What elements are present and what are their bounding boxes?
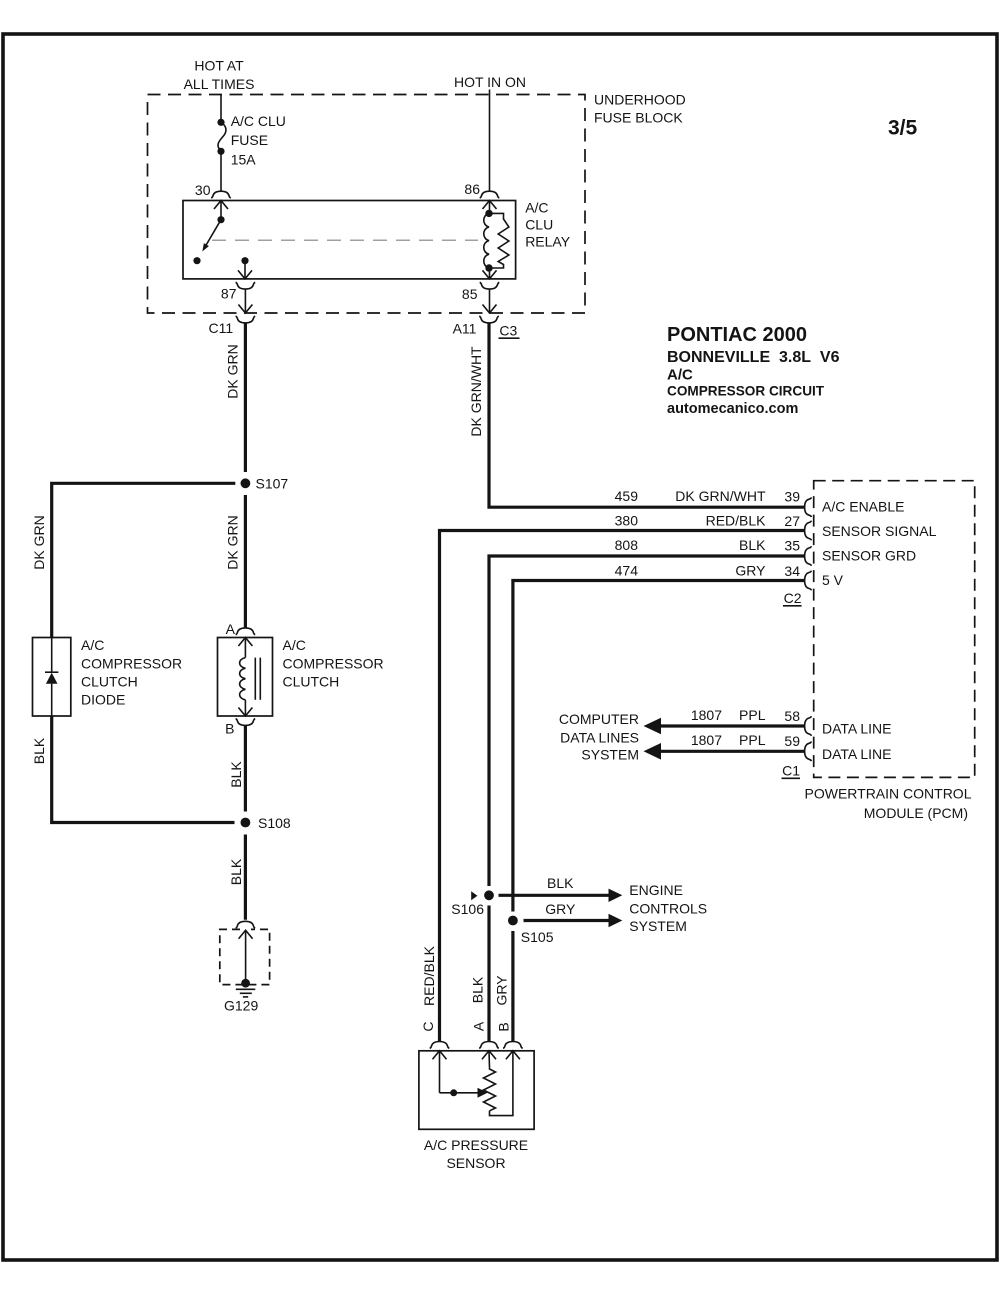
title block PONTIAC 2000 (667, 324, 840, 417)
svg-text:DK GRN/WHT: DK GRN/WHT (468, 346, 484, 437)
wire BLK S106 to engine controls (499, 889, 623, 902)
svg-text:A/C PRESSURE: A/C PRESSURE (424, 1137, 528, 1153)
wire S108 to G129 (244, 835, 247, 920)
relay coil parallel resistor (489, 213, 509, 268)
svg-text:30: 30 (195, 182, 211, 198)
svg-text:ALL TIMES: ALL TIMES (184, 76, 255, 92)
ground G129 dashed box (220, 929, 270, 984)
svg-text:85: 85 (462, 286, 478, 302)
splice S108 (241, 818, 251, 828)
relay pin 85 connector (480, 282, 500, 289)
svg-text:DK GRN: DK GRN (225, 344, 241, 398)
svg-text:34: 34 (784, 563, 800, 579)
svg-text:HOT AT: HOT AT (194, 58, 244, 74)
svg-text:58: 58 (784, 708, 800, 724)
underhood fuse block dashed box (148, 95, 586, 314)
svg-text:BLK: BLK (739, 537, 766, 553)
wire DK GRN/WHT A11 to PCM 39 (489, 323, 804, 508)
svg-text:35: 35 (784, 538, 800, 554)
wire clutch B to S108 (244, 726, 247, 812)
svg-text:SENSOR GRD: SENSOR GRD (822, 548, 916, 564)
svg-text:S106: S106 (451, 901, 484, 917)
sensor internal resistor (484, 1068, 496, 1111)
svg-text:DATA LINE: DATA LINE (822, 721, 892, 737)
relay pin 86 connector (480, 191, 500, 198)
svg-text:87: 87 (221, 286, 237, 302)
PCM pin 27 connector (805, 521, 812, 541)
svg-text:SENSOR SIGNAL: SENSOR SIGNAL (822, 523, 937, 539)
wire data line 59 (644, 743, 805, 760)
svg-text:3/5: 3/5 (888, 117, 918, 140)
svg-text:G129: G129 (224, 998, 258, 1014)
clutch L1 coil (238, 638, 260, 717)
svg-text:B: B (496, 1022, 512, 1031)
sensor pin B connector (503, 1042, 523, 1049)
sensor pin A connector (479, 1042, 499, 1049)
svg-text:B: B (225, 721, 234, 737)
svg-text:DK GRN/WHT: DK GRN/WHT (675, 488, 766, 504)
svg-text:474: 474 (615, 562, 639, 578)
relay armature dashed link (212, 239, 478, 241)
svg-text:459: 459 (615, 488, 639, 504)
svg-text:RELAY: RELAY (525, 234, 571, 250)
svg-text:COMPUTER: COMPUTER (559, 711, 639, 727)
svg-text:automecanico.com: automecanico.com (667, 401, 798, 417)
svg-text:39: 39 (784, 489, 800, 505)
svg-text:GRY: GRY (735, 562, 766, 578)
ground G129 symbol (236, 930, 256, 997)
svg-text:A/C: A/C (667, 367, 693, 384)
wire S107 to clutch pin A (244, 495, 247, 628)
svg-text:1807: 1807 (691, 707, 722, 723)
diode D1 box (33, 638, 71, 717)
svg-text:SYSTEM: SYSTEM (629, 918, 687, 934)
svg-text:380: 380 (615, 513, 639, 529)
svg-text:15A: 15A (231, 152, 257, 168)
sensor internal pin A lead (482, 1051, 496, 1068)
svg-text:CONTROLS: CONTROLS (629, 901, 707, 917)
clutch L1 box (218, 638, 273, 717)
svg-text:BLK: BLK (31, 737, 47, 764)
wire fuse to relay pin 30 (220, 151, 222, 191)
PCM dashed box (814, 481, 975, 778)
splice S107 (241, 478, 251, 488)
relay coil (483, 201, 497, 279)
sensor box A/C pressure sensor (419, 1051, 534, 1130)
PCM pin 58 connector (805, 716, 812, 736)
splice S105 (508, 916, 518, 926)
svg-text:DIODE: DIODE (81, 692, 125, 708)
svg-text:COMPRESSOR CIRCUIT: COMPRESSOR CIRCUIT (667, 384, 825, 399)
svg-text:A: A (471, 1021, 487, 1031)
PCM pin 34 connector (805, 571, 812, 591)
connector A11 C3 (479, 316, 499, 323)
wire diode to S108 (52, 716, 235, 823)
svg-text:GRY: GRY (494, 975, 510, 1006)
wire BLK S106 to sensor A (487, 906, 490, 1042)
svg-text:FUSE: FUSE (231, 132, 268, 148)
svg-text:S107: S107 (256, 476, 289, 492)
svg-text:CLU: CLU (525, 217, 553, 233)
svg-text:COMPRESSOR: COMPRESSOR (81, 656, 182, 672)
svg-text:A/C ENABLE: A/C ENABLE (822, 499, 904, 515)
svg-text:C1: C1 (782, 763, 800, 779)
wire hot feed to fuse (220, 95, 222, 122)
svg-text:C3: C3 (499, 323, 517, 339)
svg-text:BLK: BLK (547, 875, 574, 891)
svg-text:CLUTCH: CLUTCH (283, 674, 340, 690)
svg-text:COMPRESSOR: COMPRESSOR (283, 656, 384, 672)
sensor pin C connector (430, 1042, 450, 1049)
svg-text:SENSOR: SENSOR (446, 1155, 505, 1171)
sensor internal pin B lead (490, 1051, 520, 1116)
svg-text:BLK: BLK (470, 976, 486, 1003)
svg-text:5 V: 5 V (822, 572, 844, 588)
svg-text:ENGINE: ENGINE (629, 882, 683, 898)
relay switch common pin 30 (214, 201, 228, 224)
wire GRY S105 to sensor B (511, 931, 514, 1042)
svg-text:FUSE BLOCK: FUSE BLOCK (594, 110, 683, 126)
wire relay 85 to A11 (483, 290, 497, 314)
clutch pin A connector (236, 628, 256, 635)
svg-text:BONNEVILLE 3.8L V6: BONNEVILLE 3.8L V6 (667, 349, 840, 366)
svg-text:A/C CLU: A/C CLU (231, 113, 286, 129)
clutch pin B connector (236, 719, 256, 726)
svg-text:RED/BLK: RED/BLK (706, 513, 767, 529)
wire relay 87 to C11 (238, 290, 252, 314)
svg-text:59: 59 (784, 733, 800, 749)
svg-text:S108: S108 (258, 815, 291, 831)
relay switch arm (193, 220, 221, 265)
svg-text:BLK: BLK (228, 858, 244, 885)
relay pin 87 connector (236, 282, 256, 289)
wire DK GRN C11 to S107 (244, 323, 247, 473)
svg-text:POWERTRAIN CONTROL: POWERTRAIN CONTROL (805, 786, 972, 802)
svg-text:808: 808 (615, 537, 639, 553)
svg-text:DATA LINE: DATA LINE (822, 746, 892, 762)
relay pin 30 connector (211, 191, 231, 198)
wire BLK PCM 35 to S106 (489, 556, 804, 886)
svg-text:86: 86 (464, 181, 480, 197)
wire S107 left branch to diode (52, 483, 236, 637)
svg-text:DATA LINES: DATA LINES (560, 729, 639, 745)
svg-text:PONTIAC 2000: PONTIAC 2000 (667, 324, 807, 346)
PCM pin 39 connector (805, 497, 812, 517)
svg-text:S105: S105 (521, 929, 554, 945)
wire GRY PCM 34 to S105 (513, 581, 804, 912)
sensor internal pin C wiper (433, 1051, 488, 1098)
svg-text:C: C (420, 1021, 436, 1031)
wire data line 58 (644, 718, 805, 735)
ground G129 connector (236, 921, 256, 928)
svg-text:1807: 1807 (691, 732, 722, 748)
fuse A/C CLU FUSE 15A (217, 119, 226, 155)
svg-text:SYSTEM: SYSTEM (581, 747, 639, 763)
PCM pin 59 connector (805, 742, 812, 762)
relay switch contact pin 87 (238, 257, 252, 279)
wire hot in on to relay pin 86 (489, 90, 491, 192)
svg-text:PPL: PPL (739, 707, 766, 723)
PCM pin 35 connector (805, 546, 812, 566)
svg-text:PPL: PPL (739, 732, 766, 748)
wire RED/BLK PCM 27 to sensor C (440, 531, 805, 1042)
diode D1 A/C compressor clutch diode (45, 638, 58, 717)
svg-text:DK GRN: DK GRN (225, 515, 241, 569)
svg-text:A/C: A/C (525, 199, 548, 215)
svg-text:A/C: A/C (283, 637, 306, 653)
svg-text:HOT IN ON: HOT IN ON (454, 74, 526, 90)
svg-text:BLK: BLK (228, 761, 244, 788)
svg-text:27: 27 (784, 513, 800, 529)
svg-text:A11: A11 (453, 321, 477, 337)
svg-text:GRY: GRY (545, 901, 576, 917)
svg-text:A: A (226, 621, 236, 637)
splice S106 (471, 890, 494, 900)
svg-text:UNDERHOOD: UNDERHOOD (594, 92, 686, 108)
wire GRY S105 to engine controls (524, 914, 623, 927)
svg-text:A/C: A/C (81, 637, 104, 653)
connector C11 (236, 316, 256, 323)
svg-text:RED/BLK: RED/BLK (421, 945, 437, 1006)
svg-text:MODULE (PCM): MODULE (PCM) (864, 805, 968, 821)
relay U1 A/C CLU RELAY box (183, 201, 516, 279)
svg-text:CLUTCH: CLUTCH (81, 674, 138, 690)
svg-text:DK GRN: DK GRN (31, 515, 47, 569)
svg-text:C2: C2 (784, 590, 802, 606)
svg-text:C11: C11 (209, 320, 234, 336)
